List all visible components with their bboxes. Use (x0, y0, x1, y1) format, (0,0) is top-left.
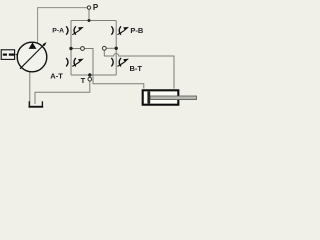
valve B-T arrow (118, 62, 125, 66)
pump circle (17, 42, 47, 72)
junction dot node A (69, 47, 72, 50)
svg-text:P-B: P-B (130, 26, 144, 35)
wire bottom rail (71, 74, 116, 76)
tank (29, 101, 42, 106)
valve P-B arcs (111, 26, 121, 35)
wire P port down to top rail (88, 9, 90, 20)
cylinder rod (150, 96, 196, 100)
compensator internals (3, 53, 7, 55)
port circle A (81, 47, 85, 51)
cylinder piston (147, 92, 150, 104)
wire pump suction to tank (29, 72, 31, 106)
wire T return to tank (35, 81, 90, 104)
svg-text:T: T (81, 76, 86, 85)
valve A-T arrow (72, 62, 79, 66)
svg-text:P-A: P-A (52, 27, 64, 34)
wire B branch with hop over vertical to cylinder rod end (104, 50, 174, 89)
svg-text:P: P (93, 3, 99, 12)
valve P-A arrow (72, 30, 79, 34)
junction dot node B (115, 47, 118, 50)
valve P-B arrow (118, 30, 125, 34)
wire top rail (71, 20, 116, 22)
pump variable arrow head (43, 42, 47, 46)
compensator box (1, 50, 14, 60)
valve A-T arcs (66, 58, 76, 66)
port circle P (87, 6, 90, 9)
cylinder barrel (143, 90, 179, 104)
wire B node stub to B port circle (106, 47, 116, 49)
valve B-T arcs (111, 58, 121, 66)
wire T stub to T port circle (89, 75, 91, 77)
port circle T (88, 77, 92, 81)
svg-text:B-T: B-T (130, 64, 143, 73)
wire pump outlet riser to P (faint) (38, 8, 88, 44)
junction dot node T (88, 73, 91, 76)
pump triangle (29, 42, 37, 49)
junction dot at P/top rail (88, 19, 91, 22)
valve P-A arcs (66, 26, 76, 35)
port circle B (102, 46, 106, 50)
pump variable arrow shaft (20, 45, 44, 69)
wire A branch to cylinder cap end (71, 49, 144, 89)
wire right bridge vertical (115, 21, 117, 76)
svg-text:A-T: A-T (50, 71, 63, 80)
compensator arrow head / link to pump (13, 53, 16, 56)
wire left bridge vertical (70, 21, 72, 76)
